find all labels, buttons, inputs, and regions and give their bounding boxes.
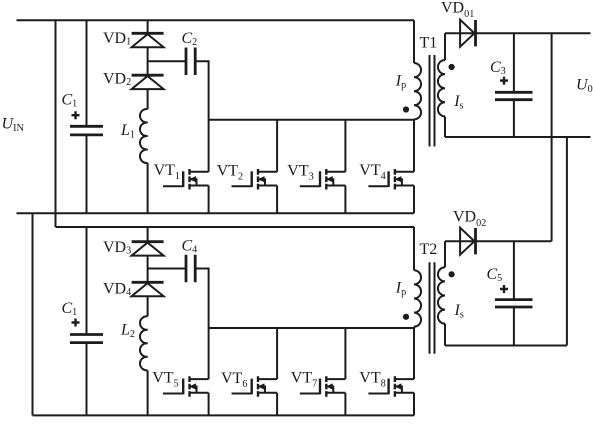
wire VT1 source lead <box>208 186 210 214</box>
svg-text:VD01: VD01 <box>441 0 474 20</box>
diode VD2 <box>132 75 164 89</box>
capacitor C5 leads <box>513 241 515 345</box>
transistor VT8 <box>368 376 414 397</box>
wire T1 secondary bottom lead <box>444 117 446 138</box>
svg-text:Ip: Ip <box>395 279 406 298</box>
svg-text:Ip: Ip <box>395 72 406 91</box>
svg-text:L2: L2 <box>120 322 135 341</box>
wire VT8 source lead <box>413 393 415 416</box>
svg-text:VT1: VT1 <box>154 162 180 182</box>
svg-text:VD2: VD2 <box>103 71 131 89</box>
C1 top plus sign <box>72 111 80 119</box>
transformer T2 primary coil <box>414 270 421 326</box>
wire L1 bottom lead <box>147 163 149 213</box>
wire top input rail <box>17 19 415 21</box>
wire VD4 to L2 <box>147 296 149 316</box>
wire output bottom module1 <box>445 136 591 138</box>
wire drain rail module2 <box>209 327 414 329</box>
capacitor C3 plates <box>495 92 533 99</box>
transformer T1 primary coil <box>414 63 421 119</box>
svg-text:U0: U0 <box>576 77 593 96</box>
svg-text:T2: T2 <box>420 241 438 258</box>
transistor VT7 <box>300 376 346 397</box>
wire VT7 source lead <box>344 393 346 416</box>
C5 plus sign <box>500 285 508 293</box>
wire VT3 source lead <box>344 186 346 214</box>
transformer T1 secondary coil <box>438 60 445 116</box>
svg-text:T1: T1 <box>420 35 438 52</box>
diode VD3 <box>132 242 164 256</box>
wire node B to C4 <box>148 268 186 270</box>
transistor VT2 <box>232 169 278 190</box>
wire drain rail module1 <box>209 119 414 121</box>
wire T2 secondary bottom lead <box>444 324 446 346</box>
svg-text:C4: C4 <box>182 238 198 256</box>
wire top rail module2 <box>56 226 415 228</box>
svg-text:VT8: VT8 <box>359 370 385 390</box>
svg-text:VT4: VT4 <box>359 162 385 182</box>
svg-text:VD3: VD3 <box>103 239 131 257</box>
wire VT6 drain lead <box>276 328 278 379</box>
wire output bottom module2 <box>445 345 567 347</box>
diode VD4 <box>132 282 164 296</box>
diode VD1 <box>132 33 164 47</box>
wire VT2 drain lead <box>276 120 278 172</box>
svg-text:C1: C1 <box>62 91 78 109</box>
svg-text:VT5: VT5 <box>152 370 178 390</box>
T1 secondary phase dot <box>449 64 455 70</box>
capacitor C5 plates <box>495 300 533 307</box>
wire VT3 drain lead <box>344 120 346 172</box>
svg-text:VT3: VT3 <box>287 163 313 183</box>
svg-text:VD02: VD02 <box>453 209 486 230</box>
wire VT4 source lead <box>413 186 415 214</box>
wire VD3-VD4 node B <box>147 256 149 283</box>
wire L2 bottom lead <box>147 370 149 415</box>
wire C2 to VT1 drain <box>195 61 208 172</box>
capacitor C3 leads <box>513 33 515 137</box>
wire C4 to VT5 drain <box>195 269 208 380</box>
svg-text:C1: C1 <box>62 300 78 318</box>
transformer T2 core <box>430 262 435 354</box>
C3 plus sign <box>500 77 508 85</box>
svg-text:VD1: VD1 <box>103 30 131 48</box>
T2 secondary phase dot <box>449 271 455 277</box>
diode VD02 <box>460 228 475 255</box>
wire mid rail module1 return <box>17 212 415 214</box>
capacitor C1 top plates <box>70 126 103 135</box>
transformer T2 secondary coil <box>438 267 445 323</box>
wire left bus module2 <box>32 213 34 415</box>
wire VT5 source lead <box>208 393 210 416</box>
wire bottom rail module2 <box>33 414 415 416</box>
wire VT7 drain lead <box>344 328 346 379</box>
svg-text:C2: C2 <box>182 30 198 48</box>
wire T2 secondary top lead <box>444 241 446 267</box>
wire VD1-VD2 node A <box>147 47 149 75</box>
svg-text:C5: C5 <box>487 266 503 284</box>
diode VD01 <box>460 20 475 47</box>
wire T2 primary bottom stub <box>413 327 415 328</box>
transistor VT5 <box>163 376 209 397</box>
C1 bottom plus sign <box>72 319 80 327</box>
inductor L1 <box>140 109 148 163</box>
wire left input bus <box>55 20 57 227</box>
wire VT4 drain lead <box>413 120 415 172</box>
wire right bus output plus <box>551 33 553 241</box>
wire VD2 to L1 <box>147 89 149 109</box>
svg-text:VT2: VT2 <box>217 163 243 183</box>
wire VD1 top lead <box>147 20 149 33</box>
wire VT6 source lead <box>276 393 278 416</box>
transistor VT3 <box>300 169 346 190</box>
transformer T1 core <box>430 55 435 147</box>
wire T1 primary top lead <box>413 20 415 63</box>
wire output top module2 <box>445 240 552 242</box>
capacitor C2 plates <box>186 48 195 76</box>
wire T1 secondary top lead <box>444 33 446 60</box>
wire node A to C2 <box>148 60 186 62</box>
svg-text:L1: L1 <box>120 122 135 141</box>
svg-text:Is: Is <box>454 302 464 321</box>
wire VD3 top lead <box>147 227 149 242</box>
wire VT8 drain lead <box>413 328 415 379</box>
capacitor C4 plates <box>186 255 195 282</box>
capacitor C1 top leads <box>86 20 88 213</box>
wire VT2 source lead <box>276 186 278 214</box>
capacitor C1 bottom leads <box>86 227 88 415</box>
T1 primary phase dot <box>403 106 409 112</box>
inductor L2 <box>140 316 148 370</box>
svg-text:C3: C3 <box>490 59 506 77</box>
wire right bus output minus <box>566 137 568 346</box>
svg-text:UIN: UIN <box>2 116 25 135</box>
transistor VT1 <box>163 169 209 190</box>
svg-text:VT6: VT6 <box>221 370 247 390</box>
wire T2 primary top lead <box>413 227 415 270</box>
T2 primary phase dot <box>403 314 409 320</box>
transistor VT4 <box>368 169 414 190</box>
transistor VT6 <box>232 376 278 397</box>
wire output top module1 <box>445 32 591 34</box>
svg-text:Is: Is <box>453 93 463 112</box>
svg-text:VD4: VD4 <box>103 280 131 298</box>
capacitor C1 bottom plates <box>70 335 103 343</box>
svg-text:VT7: VT7 <box>291 370 317 390</box>
